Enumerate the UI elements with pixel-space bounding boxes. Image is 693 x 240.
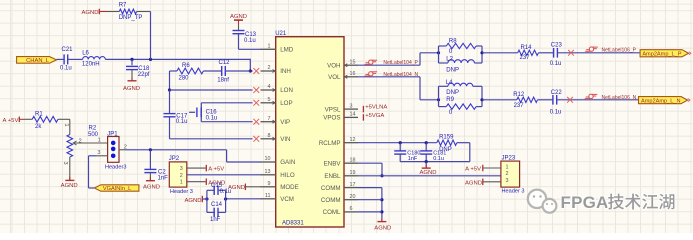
power label +5VLNA	[363, 104, 387, 112]
junction network P right	[480, 51, 483, 54]
svg-text:L4: L4	[446, 80, 453, 86]
wire R14 to C23	[538, 52, 553, 54]
svg-text:8: 8	[268, 133, 271, 139]
junction INH node	[249, 69, 252, 72]
resistor R1	[19, 111, 58, 130]
connector JP1 (Header3)	[105, 131, 126, 170]
watermark logo	[528, 190, 557, 213]
resistor R9	[439, 97, 483, 116]
capacitor C16	[189, 108, 217, 122]
svg-text:4: 4	[268, 84, 271, 90]
svg-text:AGND: AGND	[81, 10, 98, 16]
svg-text:C13: C13	[245, 32, 257, 38]
svg-text:R12: R12	[513, 92, 525, 98]
svg-text:INH: INH	[280, 68, 291, 75]
svg-text:R6: R6	[182, 63, 190, 69]
pot wiper to JP1 pin 1	[73, 137, 107, 145]
svg-text:C23: C23	[551, 42, 563, 48]
resistor R7	[108, 2, 143, 21]
svg-text:AGND: AGND	[374, 225, 391, 231]
JP2 pin 2 to HILO wire	[187, 174, 261, 176]
svg-text:DNP: DNP	[446, 67, 459, 73]
pin 4 LON	[253, 84, 293, 94]
svg-text:VCM: VCM	[280, 196, 294, 203]
svg-text:AGND: AGND	[419, 170, 436, 176]
JP2 pin 1 to AGND	[187, 178, 226, 186]
svg-text:5: 5	[268, 97, 271, 103]
wire ENBV to ENBL	[358, 163, 382, 176]
svg-text:11: 11	[265, 193, 271, 199]
port Amp2Amp_L_N	[639, 97, 691, 105]
svg-text:1: 1	[98, 137, 101, 143]
potentiometer R2	[62, 124, 99, 165]
capacitor C22	[550, 90, 563, 115]
svg-text:2: 2	[268, 65, 271, 71]
svg-text:3: 3	[97, 150, 100, 156]
JP23 pin 3 to AGND	[465, 179, 501, 187]
svg-text:DNP_TP: DNP_TP	[119, 15, 143, 21]
svg-text:1nF: 1nF	[210, 217, 221, 223]
svg-text:Amp2Amp_L_P: Amp2Amp_L_P	[642, 51, 681, 57]
svg-text:Header3: Header3	[105, 165, 126, 171]
power label +5VGA	[363, 113, 384, 121]
svg-text:18nf: 18nf	[217, 77, 229, 83]
svg-text:Header 3: Header 3	[502, 189, 525, 195]
svg-text:C18: C18	[138, 66, 150, 72]
wire COMM 17 to bus	[358, 188, 382, 222]
ground AGND (RCLMP)	[419, 162, 436, 176]
wire RCLMP	[358, 142, 437, 144]
svg-text:NetLabel104_P: NetLabel104_P	[383, 60, 418, 66]
svg-text:14: 14	[350, 112, 356, 118]
junction VCM right	[224, 197, 227, 200]
ground AGND (C2)	[143, 177, 160, 190]
wire C22 to port N	[557, 99, 639, 101]
svg-text:17: 17	[350, 182, 356, 188]
capacitor C14	[207, 202, 226, 223]
svg-text:MODE: MODE	[280, 184, 299, 191]
svg-text:C14: C14	[211, 202, 223, 208]
svg-text:3: 3	[180, 166, 183, 172]
wire R1 to R2	[58, 119, 70, 134]
svg-text:1: 1	[506, 164, 509, 170]
differential marker (N)	[585, 94, 598, 98]
ground AGND (C18)	[123, 77, 140, 92]
op-amp / VGA IC U21 (AD8331) body	[276, 37, 344, 227]
svg-text:DNP: DNP	[446, 90, 459, 96]
JP2 pin 3 to A +5V	[187, 165, 224, 173]
svg-text:0: 0	[449, 110, 453, 116]
port VGAINIn_L	[94, 185, 138, 192]
svg-text:AD8331: AD8331	[282, 220, 304, 226]
pin 16 VOL	[328, 71, 358, 81]
capacitor C12	[203, 60, 250, 83]
svg-text:FPGA: FPGA	[561, 193, 609, 212]
svg-text:VIN: VIN	[280, 136, 290, 143]
svg-text:15: 15	[350, 59, 356, 65]
connector JP2 (Header 3)	[169, 156, 193, 195]
watermark text	[561, 193, 675, 212]
svg-text:13: 13	[265, 169, 271, 175]
power port A +5V (R1)	[3, 117, 20, 124]
svg-text:0.1u: 0.1u	[244, 38, 256, 44]
junction C18 tap	[130, 58, 133, 61]
wire R7 to main line	[137, 12, 151, 60]
resistor R159 (DNP)	[437, 134, 457, 153]
svg-text:6: 6	[350, 206, 353, 212]
designator U21	[275, 31, 287, 37]
pin 9 MODE	[261, 181, 299, 191]
svg-text:R8: R8	[449, 39, 457, 45]
svg-text:A +5V: A +5V	[208, 166, 224, 172]
pin 5 LOP	[253, 97, 292, 107]
pin 17 COMM	[321, 182, 358, 192]
svg-text:C2: C2	[158, 170, 166, 176]
svg-text:COMM: COMM	[321, 185, 341, 192]
junction LON node	[168, 88, 171, 91]
svg-text:R7: R7	[119, 2, 127, 8]
svg-text:L2: L2	[446, 57, 453, 63]
pin 18 ENBV	[324, 157, 358, 167]
svg-text:NetLabel106_N: NetLabel106_N	[602, 95, 637, 101]
wire VCM to cap pair	[226, 198, 261, 200]
svg-text:CHAN_L: CHAN_L	[26, 58, 50, 64]
svg-text:0.1u: 0.1u	[176, 119, 188, 125]
svg-text:3: 3	[350, 103, 353, 109]
resistor R6	[170, 63, 204, 81]
svg-text:9: 9	[268, 181, 271, 187]
svg-text:3: 3	[62, 162, 68, 165]
no-ERC mark (P)	[568, 50, 574, 56]
svg-text:L6: L6	[82, 50, 89, 56]
differential marker (VOL)	[365, 72, 378, 76]
wire C23 to port P	[557, 52, 640, 54]
svg-text:R1: R1	[35, 111, 43, 117]
wire R12 to C22	[538, 99, 553, 101]
junction COMM 20	[380, 198, 383, 201]
pin 19 ENBL	[324, 170, 358, 180]
svg-text:2k: 2k	[35, 124, 42, 130]
capacitor C17	[164, 90, 188, 139]
svg-text:AGND: AGND	[123, 86, 140, 92]
wire C17 to VIN	[170, 138, 253, 140]
svg-text:R14: R14	[521, 45, 533, 51]
ground AGND (COMM bus)	[374, 218, 391, 231]
svg-text:0.1u: 0.1u	[550, 109, 562, 115]
svg-text:18: 18	[350, 157, 356, 163]
svg-text:RCLMP: RCLMP	[319, 140, 341, 147]
resistor R14	[518, 45, 539, 61]
svg-text:2: 2	[79, 139, 82, 145]
pin 14 VPOS	[323, 112, 358, 122]
wire network P to R14	[482, 52, 518, 54]
svg-text:NetLabel104_N: NetLabel104_N	[383, 72, 418, 78]
svg-text:12: 12	[350, 137, 356, 143]
junction C181 tap	[425, 141, 428, 144]
capacitor C181	[420, 143, 446, 162]
wire ENBL to JP23	[358, 175, 501, 177]
pin 7 VIP	[253, 116, 290, 126]
wire R2 to AGND	[69, 157, 71, 180]
svg-text:C12: C12	[219, 60, 231, 66]
svg-text:C22: C22	[551, 90, 563, 96]
svg-text:10: 10	[265, 156, 271, 162]
net label NetLabel106_P	[602, 48, 637, 54]
svg-text:3: 3	[506, 178, 509, 184]
ground AGND (VCM caps)	[184, 196, 206, 204]
svg-text:2: 2	[180, 173, 183, 179]
svg-text:1nF: 1nF	[158, 176, 169, 182]
pin 15 VOH	[327, 59, 358, 69]
wire left chain top	[169, 71, 171, 90]
wire LON to chip	[170, 89, 253, 91]
R8-L2 frame	[439, 46, 483, 63]
svg-text:VOH: VOH	[327, 62, 340, 69]
ground AGND (R7)	[81, 9, 107, 16]
net label NetLabel106_N	[602, 95, 637, 101]
JP23 pin 1 to A +5V	[465, 165, 501, 173]
wire L6 to INH corner	[105, 59, 252, 71]
svg-text:19: 19	[350, 170, 356, 176]
part name AD8331	[282, 220, 304, 226]
wire VOH to network P	[358, 53, 439, 65]
svg-text:Amp2Amp_L_N: Amp2Amp_L_N	[641, 98, 681, 104]
svg-text:120nH: 120nH	[82, 62, 100, 68]
svg-text:LON: LON	[280, 87, 293, 94]
connector JP23 (Header 3)	[501, 155, 525, 194]
svg-text:AGND: AGND	[465, 180, 482, 186]
pin 20 COMM	[321, 194, 358, 204]
capacitor C15	[207, 183, 231, 195]
wire R159 loop	[400, 143, 470, 162]
resistor R8	[439, 39, 483, 56]
inductor L4 (DNP)	[439, 80, 483, 96]
svg-text:1: 1	[180, 180, 183, 186]
capacitor C18	[126, 59, 150, 80]
svg-text:AGND: AGND	[143, 184, 160, 190]
cap pair frame	[207, 190, 226, 212]
wire C13 to LMD	[239, 48, 261, 50]
svg-text:VOL: VOL	[328, 74, 341, 81]
power label AGND (MODE)	[228, 184, 261, 192]
wire network N to R12	[482, 99, 517, 101]
pin 11 VCM	[261, 193, 294, 203]
svg-text:COML: COML	[323, 209, 341, 216]
differential marker (VOH)	[365, 60, 378, 64]
ground AGND (R2)	[61, 177, 78, 189]
junction C180 tap	[399, 141, 402, 144]
pin 12 RCLMP	[319, 137, 358, 147]
svg-text:VIP: VIP	[280, 119, 290, 126]
capacitor C21	[60, 47, 83, 71]
svg-text:LMD: LMD	[280, 47, 294, 54]
JP1 pin 3 stub	[97, 150, 108, 156]
svg-text:1: 1	[268, 44, 271, 50]
resistor R12	[513, 92, 537, 109]
JP1 pin 2 stub	[119, 144, 127, 150]
junction COML	[380, 210, 383, 213]
svg-text:A +5V: A +5V	[3, 118, 19, 124]
svg-text:R159: R159	[439, 134, 454, 140]
port Amp2Amp_L_P	[640, 50, 691, 58]
svg-text:HILO: HILO	[280, 172, 295, 179]
pin 1 LMD	[261, 44, 294, 54]
svg-text:280: 280	[179, 75, 190, 81]
pin 6 COML	[323, 206, 358, 216]
pin 3 VPSL	[325, 103, 358, 113]
pin 13 HILO	[261, 169, 295, 179]
svg-text:AGND: AGND	[61, 183, 78, 189]
svg-text:0.1u: 0.1u	[60, 65, 72, 71]
wire LOP-VIP loop	[201, 103, 252, 122]
pin 2 INH	[253, 65, 290, 75]
wire VOL to network N	[358, 77, 439, 100]
L4-R9 frame	[439, 86, 483, 106]
junction network N left	[437, 98, 440, 101]
junction R7 tap	[149, 58, 152, 61]
svg-text:R9: R9	[446, 97, 454, 103]
wire port to C21	[57, 58, 64, 60]
net label NetLabel104_P	[383, 60, 418, 66]
svg-text:VGAINIn_L: VGAINIn_L	[103, 186, 131, 192]
svg-text:AGND: AGND	[230, 14, 247, 20]
svg-text:ENBL: ENBL	[324, 173, 341, 180]
svg-text:1nF: 1nF	[408, 156, 418, 162]
svg-text:2: 2	[506, 171, 509, 177]
svg-text:AGND: AGND	[184, 198, 201, 204]
inductor L6	[82, 50, 105, 67]
svg-text:0: 0	[449, 49, 453, 55]
junction VCM left	[205, 197, 208, 200]
svg-text:R2: R2	[89, 125, 97, 131]
capacitor C23	[550, 42, 563, 67]
junction AGND tap (RCLMP)	[425, 160, 428, 163]
wire JP1 pin2 to GAIN	[126, 150, 261, 162]
svg-text:0.1u: 0.1u	[206, 116, 218, 122]
svg-text:A +5V: A +5V	[465, 166, 481, 172]
svg-text:+5VGA: +5VGA	[365, 113, 384, 119]
svg-text:ENBV: ENBV	[324, 160, 342, 167]
svg-text:VPSL: VPSL	[325, 106, 341, 113]
net label NetLabel104_N	[383, 72, 418, 78]
svg-text:COMM: COMM	[321, 197, 341, 204]
junction C2 tap	[149, 148, 152, 151]
svg-text:JP1: JP1	[107, 131, 118, 137]
junction network P left	[437, 51, 440, 54]
svg-text:JP2: JP2	[169, 156, 180, 162]
pin 8 VIN	[253, 133, 290, 143]
ground AGND (C13)	[230, 14, 247, 20]
svg-text:16: 16	[350, 71, 356, 77]
differential marker (P)	[585, 47, 598, 51]
svg-text:JP23: JP23	[502, 155, 516, 161]
svg-text:237: 237	[520, 55, 531, 61]
svg-text:GAIN: GAIN	[280, 159, 295, 166]
junction network N right	[480, 98, 483, 101]
svg-text:22pf: 22pf	[138, 72, 150, 78]
wire COMM 20 to bus	[358, 199, 382, 201]
svg-text:+5VLNA: +5VLNA	[365, 104, 387, 110]
svg-text:LOP: LOP	[280, 100, 292, 107]
capacitor C13	[233, 20, 257, 49]
wire JP1 pin3 to port	[89, 156, 97, 188]
svg-text:C16: C16	[206, 109, 218, 115]
capacitor C2	[144, 150, 168, 182]
svg-text:0.1u: 0.1u	[433, 156, 444, 162]
no-ERC mark (N)	[567, 97, 573, 103]
pin 10 GAIN	[261, 156, 296, 166]
capacitor C180	[394, 143, 420, 162]
svg-text:7: 7	[268, 116, 271, 122]
svg-text:Header 3: Header 3	[170, 189, 193, 195]
junction ENBL	[380, 174, 383, 177]
svg-text:VPOS: VPOS	[323, 115, 340, 122]
svg-text:1: 1	[63, 124, 69, 127]
wire COML to bus	[358, 211, 382, 213]
svg-text:C21: C21	[62, 47, 74, 53]
svg-text:237: 237	[514, 103, 525, 109]
port CHAN_L	[17, 57, 57, 64]
svg-text:0.1u: 0.1u	[220, 189, 232, 195]
svg-text:0.1u: 0.1u	[550, 61, 562, 67]
svg-text:20: 20	[350, 194, 356, 200]
svg-text:NetLabel106_P: NetLabel106_P	[602, 48, 637, 54]
svg-text:U21: U21	[275, 31, 287, 37]
inductor L2 (DNP)	[439, 57, 483, 74]
